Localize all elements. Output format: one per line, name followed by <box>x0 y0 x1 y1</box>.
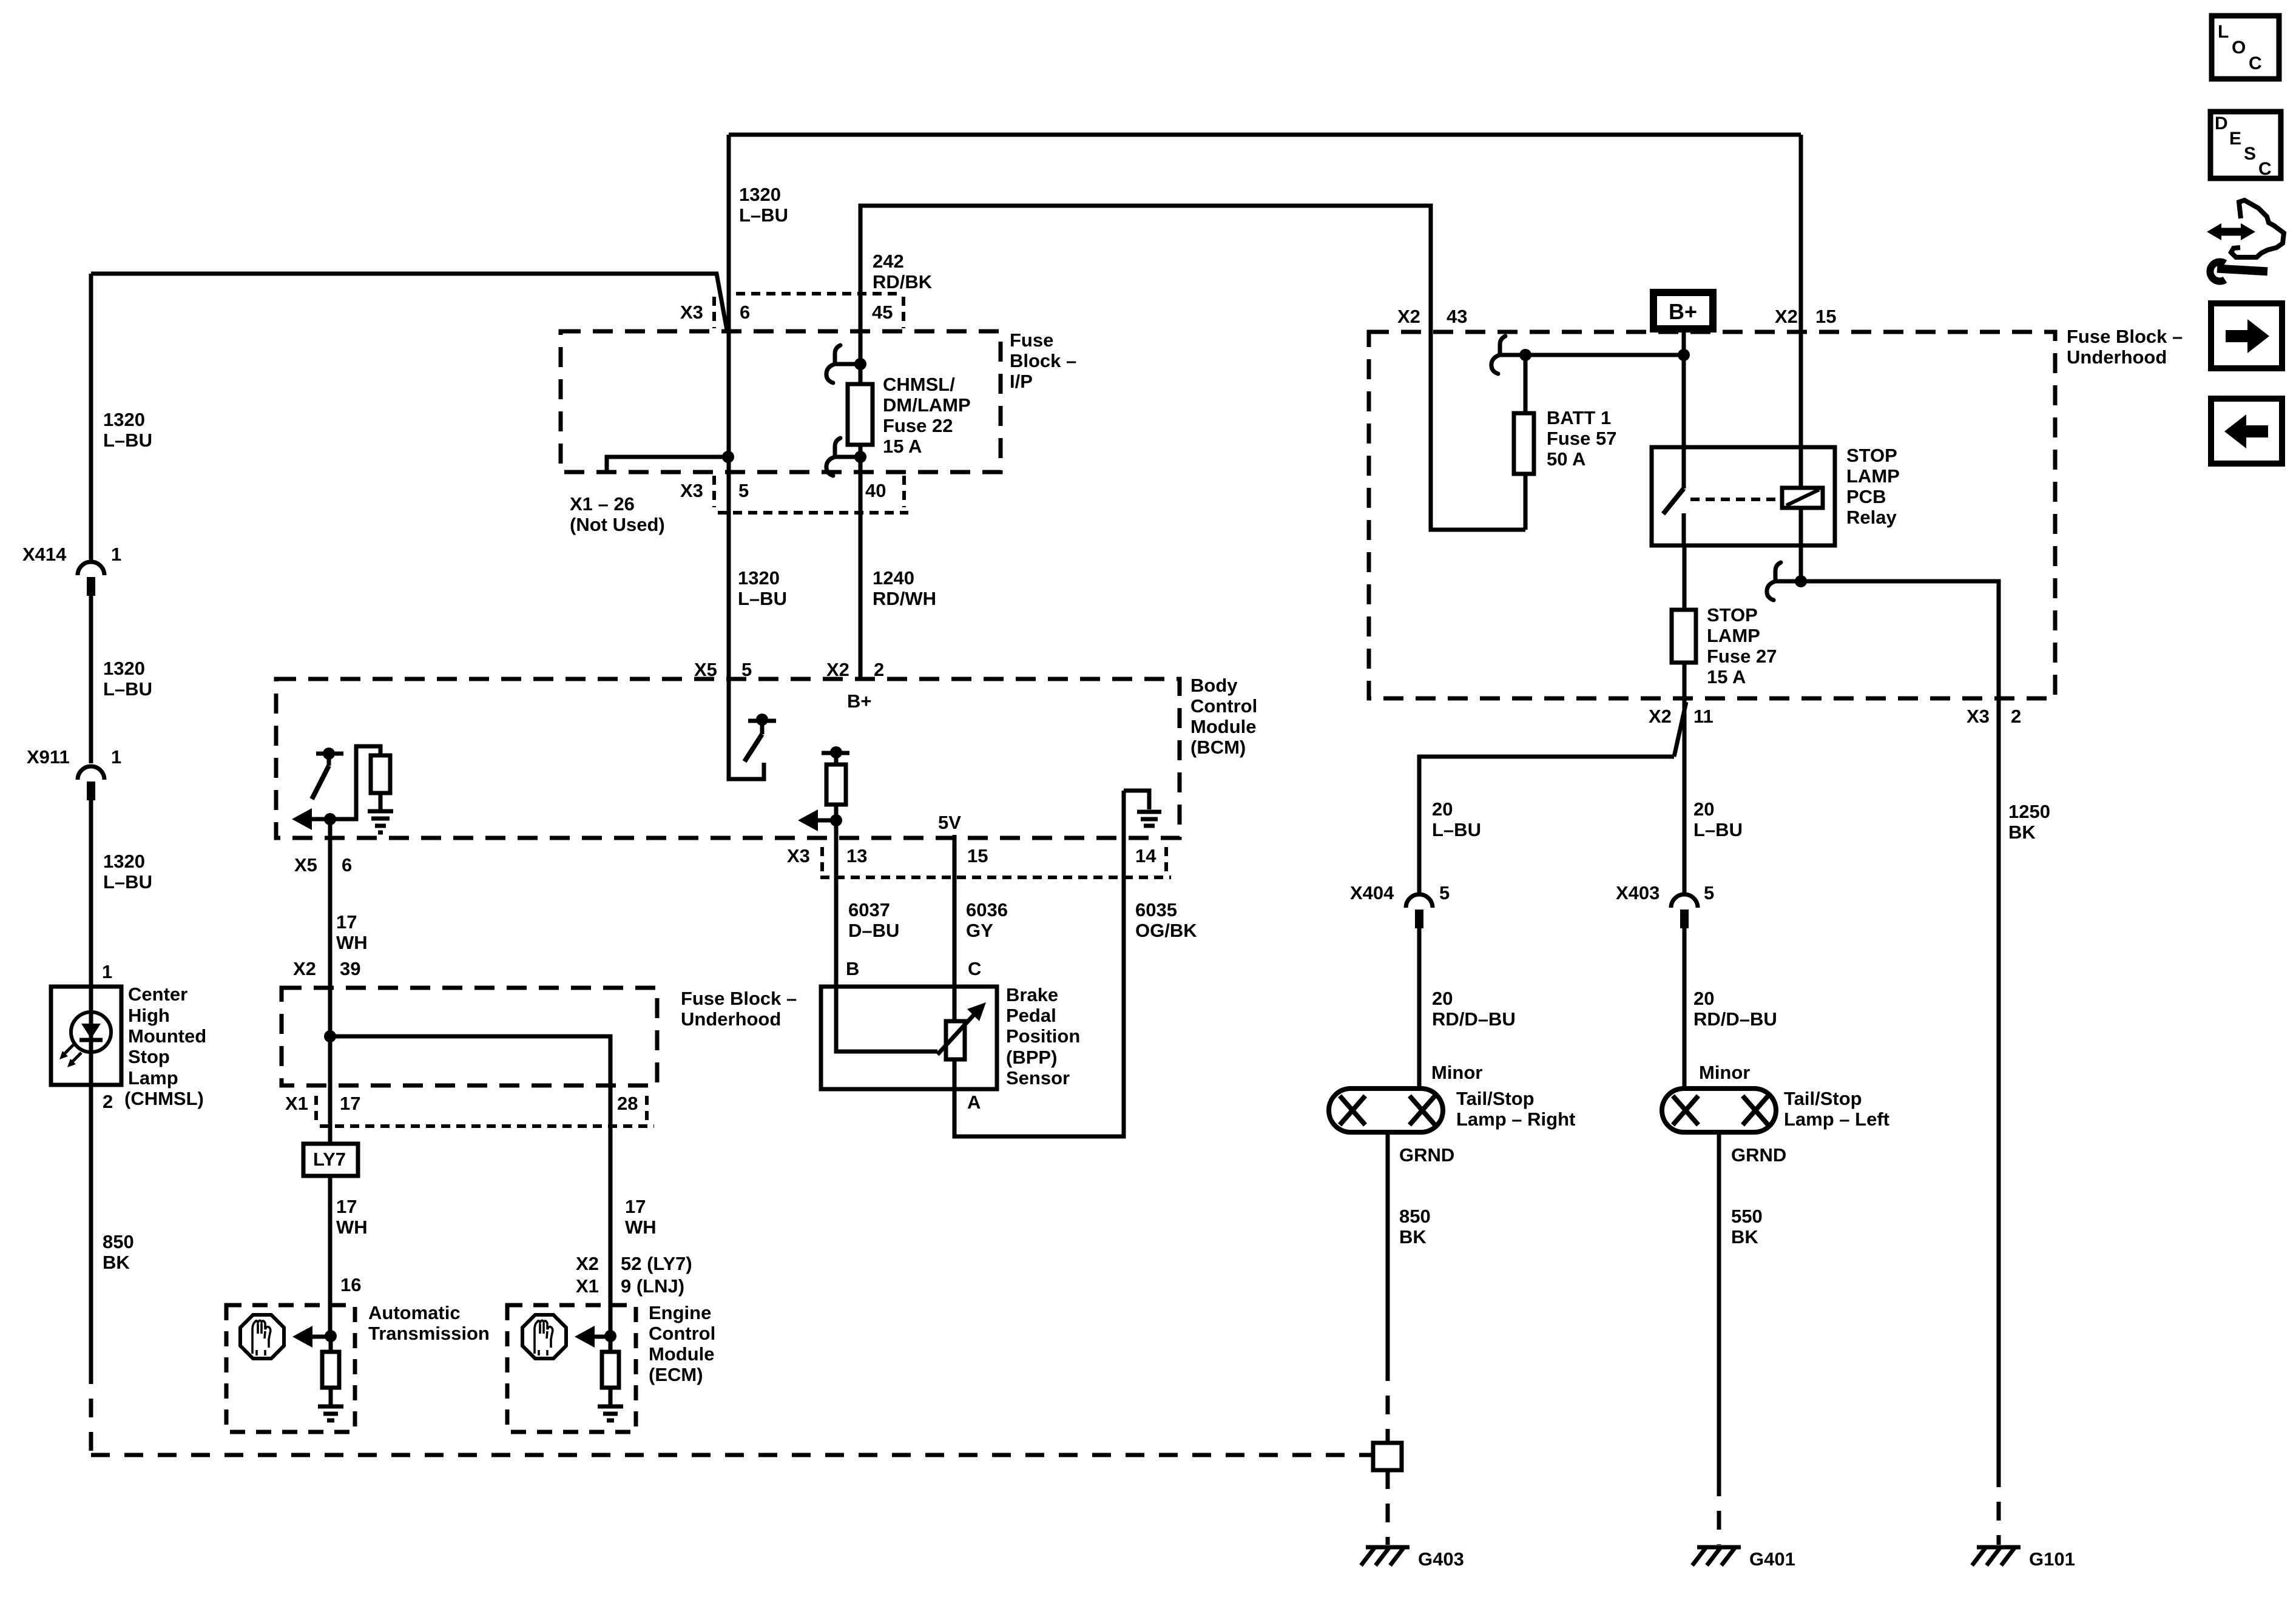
svg-text:2: 2 <box>874 659 884 680</box>
svg-text:X2: X2 <box>576 1253 599 1274</box>
label 1320 L-BU riser lower <box>103 851 152 893</box>
wire 20 RD/D-BU to right lamp <box>1417 928 1422 1089</box>
icon box LOC <box>2212 16 2279 79</box>
svg-text:L–BU: L–BU <box>103 871 152 893</box>
svg-text:Fuse Block –: Fuse Block – <box>2067 326 2183 347</box>
svg-text:40: 40 <box>865 480 886 501</box>
label GRND right lamp <box>1399 1144 1454 1166</box>
wire X5-6 junction path to resistor <box>330 746 380 819</box>
svg-text:X1: X1 <box>576 1275 599 1297</box>
svg-text:X3: X3 <box>1967 706 1990 727</box>
svg-text:BK: BK <box>1731 1226 1758 1247</box>
CHMSL lamp box <box>51 987 121 1085</box>
junction dot fuse 22 top <box>854 358 866 370</box>
svg-text:15 A: 15 A <box>1707 666 1746 687</box>
svg-text:52 (LY7): 52 (LY7) <box>621 1253 692 1274</box>
connector X403 pin 5 <box>1671 894 1698 928</box>
label X414 1 <box>22 544 121 565</box>
pin label X3 2 <box>1967 706 2021 727</box>
icon wrench <box>2210 262 2263 281</box>
brake pedal position sensor box <box>821 987 997 1089</box>
wire 850 BK right lamp ground <box>1386 1132 1390 1443</box>
svg-text:PCB: PCB <box>1846 486 1886 507</box>
label 550 BK left lamp <box>1731 1206 1763 1247</box>
svg-text:2: 2 <box>2011 706 2021 727</box>
contact dot and bar above resistor pin 13 <box>822 746 849 765</box>
label Automatic Transmission <box>368 1302 490 1344</box>
arrow left at pin 13 junction <box>798 809 836 831</box>
wire 20 RD/D-BU to left lamp <box>1683 928 1687 1089</box>
wire top run 1320 L-BU feed to relay coil <box>729 133 1801 137</box>
svg-text:5: 5 <box>1704 882 1714 903</box>
svg-text:Lamp – Left: Lamp – Left <box>1784 1109 1889 1130</box>
svg-text:G401: G401 <box>1749 1548 1795 1570</box>
icon box arrow left <box>2211 399 2282 464</box>
wire 1320 L-BU between X911 and CHMSL <box>89 796 93 987</box>
fuse block underhood left dashed box <box>282 988 657 1085</box>
svg-text:39: 39 <box>340 958 360 979</box>
junction dot fuse 22 bottom <box>854 451 866 463</box>
label Brake Pedal Position BPP Sensor <box>1006 984 1080 1089</box>
label STOP LAMP PCB Relay <box>1846 445 1900 528</box>
label Fuse Block Underhood right <box>2067 326 2183 368</box>
wire 550 BK left lamp ground <box>1717 1132 1721 1545</box>
svg-text:Brake: Brake <box>1006 984 1058 1005</box>
label 17 WH right branch <box>625 1196 657 1238</box>
svg-text:DM/LAMP: DM/LAMP <box>883 394 971 416</box>
svg-text:Block –: Block – <box>1010 350 1076 371</box>
svg-text:X3: X3 <box>680 302 703 323</box>
svg-text:X2: X2 <box>826 659 849 680</box>
svg-text:Lamp – Right: Lamp – Right <box>1456 1109 1575 1130</box>
svg-text:BK: BK <box>1399 1226 1427 1247</box>
pin label X2 11 <box>1649 706 1714 727</box>
resistor AT <box>322 1336 339 1405</box>
resistor ECM <box>602 1336 619 1405</box>
ground G403 <box>1361 1547 1410 1565</box>
svg-text:X3: X3 <box>680 480 703 501</box>
svg-text:Fuse Block –: Fuse Block – <box>681 988 797 1009</box>
svg-text:9 (LNJ): 9 (LNJ) <box>621 1275 684 1297</box>
potentiometer wiper element BPP <box>946 1021 965 1059</box>
pin label 2 CHMSL <box>103 1091 113 1112</box>
connector row X3 top of fuse block I/P <box>714 294 903 328</box>
wire 17 WH below LY7 <box>328 1176 333 1336</box>
svg-text:Fuse 57: Fuse 57 <box>1547 428 1616 449</box>
svg-text:5V: 5V <box>938 812 961 833</box>
clip hook relay output <box>1767 562 1801 600</box>
LED emission arrows <box>59 1045 81 1067</box>
label 850 BK right lamp <box>1399 1206 1431 1247</box>
wire dashed splice to G403 <box>1386 1470 1390 1545</box>
engine control module dashed box <box>507 1305 636 1432</box>
svg-text:D: D <box>2215 113 2228 133</box>
wire X2-43 to BATT1 fuse bottom <box>1431 332 1525 530</box>
wire 850 BK dashed run to splice <box>91 1365 1373 1455</box>
junction dot ECM <box>604 1330 616 1342</box>
relay mechanical link dashed <box>1690 498 1778 501</box>
svg-text:Body: Body <box>1190 675 1238 696</box>
svg-text:B+: B+ <box>847 690 872 712</box>
pin label X2 43 <box>1397 306 1467 327</box>
label 6037 D-BU <box>848 899 899 941</box>
arrow left AT <box>292 1326 331 1348</box>
connector X911 pin 1 <box>78 766 104 800</box>
label 1240 RD/WH below fuse block <box>873 567 936 609</box>
svg-text:1320: 1320 <box>739 184 781 205</box>
svg-text:Module: Module <box>649 1343 715 1365</box>
svg-text:17: 17 <box>336 1196 357 1217</box>
wire 1320 L-BU CHMSL riser upper <box>89 274 93 562</box>
svg-text:Stop: Stop <box>128 1046 170 1067</box>
pin label X5 5 BCM top <box>694 659 752 680</box>
svg-text:RD/WH: RD/WH <box>873 588 936 609</box>
svg-text:L–BU: L–BU <box>103 430 152 451</box>
pin label 40 <box>865 480 886 501</box>
label 20 L-BU left branch <box>1432 798 1481 840</box>
svg-text:WH: WH <box>336 932 368 953</box>
svg-text:GRND: GRND <box>1731 1144 1786 1166</box>
label 6035 OG/BK <box>1135 899 1197 941</box>
label X911 1 <box>27 746 121 768</box>
svg-text:Underhood: Underhood <box>681 1008 781 1030</box>
svg-text:CHMSL/: CHMSL/ <box>883 374 955 395</box>
potentiometer arrow BPP <box>937 1002 986 1055</box>
svg-text:20: 20 <box>1432 988 1453 1009</box>
svg-text:50 A: 50 A <box>1547 448 1585 470</box>
wire branch 20 L-BU to X404 <box>1419 757 1674 896</box>
svg-text:1320: 1320 <box>103 409 145 430</box>
svg-text:20: 20 <box>1432 798 1453 820</box>
svg-text:High: High <box>128 1005 170 1026</box>
ground bars ECM <box>598 1406 623 1420</box>
label GRND left lamp <box>1731 1144 1786 1166</box>
svg-text:Fuse 27: Fuse 27 <box>1707 646 1777 667</box>
svg-text:Lamp: Lamp <box>128 1067 178 1089</box>
body control module BCM dashed box <box>276 679 1180 838</box>
junction dot X5-6 <box>324 813 336 825</box>
label 17 WH upper <box>336 911 368 953</box>
wire 17 WH to ECM <box>609 1305 613 1336</box>
svg-text:RD/D–BU: RD/D–BU <box>1693 1008 1777 1030</box>
stop lamp PCB relay box <box>1652 447 1835 545</box>
svg-text:C: C <box>968 958 981 979</box>
svg-text:GRND: GRND <box>1399 1144 1454 1166</box>
svg-text:A: A <box>967 1092 981 1113</box>
svg-text:850: 850 <box>103 1231 134 1252</box>
svg-text:1240: 1240 <box>873 567 914 589</box>
svg-text:5: 5 <box>1439 882 1450 903</box>
svg-text:X1: X1 <box>285 1093 308 1114</box>
clip hook above fuse 22 <box>826 345 860 383</box>
svg-text:Relay: Relay <box>1846 507 1897 528</box>
pin label X3 6 top <box>680 302 750 323</box>
svg-text:D–BU: D–BU <box>848 920 899 941</box>
junction dot BATT1 top <box>1519 349 1531 361</box>
svg-text:Transmission: Transmission <box>368 1323 490 1344</box>
battery feed B+ box <box>1653 292 1713 329</box>
svg-text:BATT 1: BATT 1 <box>1547 407 1611 428</box>
icon box DESC <box>2210 112 2281 179</box>
svg-text:X2: X2 <box>1649 706 1672 727</box>
wire X5-6 down to BCM pin <box>328 819 333 988</box>
svg-text:6: 6 <box>342 854 352 876</box>
svg-text:17: 17 <box>340 1093 360 1114</box>
LED symbol in CHMSL <box>71 1012 111 1052</box>
label X1-26 Not Used <box>570 493 665 535</box>
wire diagonal jog at pin 11 <box>1674 702 1686 757</box>
fuse block underhood right dashed box <box>1369 332 2055 698</box>
wire relay switch to fuse 27 <box>1683 545 1687 698</box>
tail stop lamp right <box>1329 1089 1443 1132</box>
pin label 1 CHMSL <box>102 961 112 982</box>
label 1250 BK <box>2008 801 2050 843</box>
svg-text:OG/BK: OG/BK <box>1135 920 1197 941</box>
svg-text:Mounted: Mounted <box>128 1025 206 1047</box>
label Minor left lamp <box>1699 1062 1750 1083</box>
label BATT 1 Fuse 57 50 A <box>1547 407 1616 470</box>
pin label 45 <box>872 302 893 323</box>
svg-text:X2: X2 <box>293 958 316 979</box>
svg-text:6035: 6035 <box>1135 899 1177 920</box>
label 1320 L-BU below fuse block <box>738 567 787 609</box>
junction dot pin 13 branch <box>830 814 842 826</box>
svg-text:1: 1 <box>111 544 121 565</box>
svg-text:1: 1 <box>111 746 121 768</box>
svg-text:B: B <box>846 958 859 979</box>
svg-text:Position: Position <box>1006 1025 1080 1047</box>
label Tail/Stop Lamp Left <box>1784 1088 1889 1130</box>
svg-text:STOP: STOP <box>1846 445 1897 466</box>
label G401 <box>1749 1548 1795 1570</box>
svg-text:20: 20 <box>1693 988 1714 1009</box>
wire 5V 6036 GY to BPP wiper <box>953 835 957 1021</box>
svg-text:STOP: STOP <box>1707 604 1758 626</box>
pin label A BPP <box>967 1092 981 1113</box>
svg-text:BK: BK <box>103 1252 130 1273</box>
label 1320 L-BU riser middle <box>103 658 152 700</box>
svg-text:43: 43 <box>1447 306 1467 327</box>
svg-text:(ECM): (ECM) <box>649 1364 703 1385</box>
svg-text:RD/BK: RD/BK <box>873 271 933 292</box>
resistor in BCM left <box>371 755 390 810</box>
svg-text:Fuse: Fuse <box>1010 329 1053 351</box>
ground G101 <box>1972 1547 2021 1565</box>
svg-text:G403: G403 <box>1418 1548 1464 1570</box>
label X403 5 <box>1616 882 1714 903</box>
pin label X2 15 <box>1775 306 1836 327</box>
svg-text:(BCM): (BCM) <box>1190 737 1246 758</box>
svg-text:Tail/Stop: Tail/Stop <box>1456 1088 1535 1109</box>
arrow left at X5-6 junction <box>292 808 330 830</box>
svg-text:(Not Used): (Not Used) <box>570 514 665 535</box>
label 20 L-BU right branch <box>1693 798 1743 840</box>
label 17 WH below LY7 <box>336 1196 368 1238</box>
svg-text:Underhood: Underhood <box>2067 346 2167 368</box>
pin label X5 6 BCM bottom <box>294 854 352 876</box>
label 850 BK left <box>103 1231 134 1273</box>
ground G401 <box>1692 1547 1741 1565</box>
wire relay coil output <box>1799 508 1803 581</box>
icon box arrow right <box>2211 303 2282 368</box>
svg-text:45: 45 <box>872 302 893 323</box>
option box LY7 <box>303 1144 358 1176</box>
svg-text:L–BU: L–BU <box>739 204 788 226</box>
svg-text:L–BU: L–BU <box>738 588 787 609</box>
wire 1250 BK down to G101 <box>1997 698 2001 1545</box>
label 242 RD/BK <box>873 251 933 292</box>
svg-text:X403: X403 <box>1616 882 1660 903</box>
fuse F22 CHMSL/DM/LAMP <box>848 364 873 457</box>
svg-text:I/P: I/P <box>1010 371 1033 392</box>
svg-text:6037: 6037 <box>848 899 890 920</box>
svg-text:X3: X3 <box>787 845 810 866</box>
relay switch lever <box>1663 488 1684 545</box>
arrow left ECM <box>575 1326 611 1348</box>
label B+ inside BCM <box>847 690 872 712</box>
connector row X1 17 28 <box>316 1096 654 1126</box>
tail stop lamp left <box>1662 1089 1776 1132</box>
wire 1240 RD/WH from fuse 22 bottom to BCM X2-2 B+ <box>859 457 863 679</box>
label 1320 L-BU top riser <box>739 184 788 226</box>
svg-text:C: C <box>2258 159 2272 179</box>
wire branch to pin 28 <box>330 1036 610 1305</box>
svg-text:Pedal: Pedal <box>1006 1005 1056 1026</box>
svg-text:E: E <box>2229 129 2241 149</box>
svg-text:X911: X911 <box>27 746 70 768</box>
svg-text:L–BU: L–BU <box>1693 819 1743 840</box>
svg-text:L–BU: L–BU <box>103 678 152 700</box>
ground bars BCM right <box>1137 812 1161 826</box>
svg-text:WH: WH <box>625 1217 657 1238</box>
svg-text:X2: X2 <box>1397 306 1420 327</box>
svg-text:5: 5 <box>738 480 749 501</box>
junction dot X1-26 stub <box>722 451 734 463</box>
svg-text:Minor: Minor <box>1431 1062 1482 1083</box>
svg-text:15: 15 <box>967 845 988 866</box>
label X404 5 <box>1350 882 1450 903</box>
svg-text:15 A: 15 A <box>883 436 922 457</box>
svg-text:C: C <box>2249 53 2262 73</box>
pin labels X2 52 LY7 X1 9 LNJ <box>576 1253 692 1297</box>
svg-text:L: L <box>2218 22 2229 42</box>
hand icon octagon AT <box>240 1315 284 1359</box>
fuse F27 STOP LAMP <box>1672 610 1696 663</box>
fuse block I/P dashed box <box>561 331 1001 472</box>
svg-text:Control: Control <box>649 1323 715 1344</box>
connector X404 pin 5 <box>1406 894 1433 928</box>
svg-text:6: 6 <box>740 302 750 323</box>
label 5V <box>938 812 961 833</box>
pin label C BPP <box>968 958 981 979</box>
label 1320 L-BU riser upper <box>103 409 152 451</box>
svg-text:14: 14 <box>1135 845 1156 866</box>
junction dot relay output <box>1795 575 1807 587</box>
svg-text:RD/D–BU: RD/D–BU <box>1432 1008 1516 1030</box>
wire 17 WH into left underhood block <box>328 988 333 1144</box>
clip hook below fuse 22 <box>826 438 860 476</box>
ground bars AT <box>318 1406 343 1420</box>
svg-text:550: 550 <box>1731 1206 1763 1227</box>
svg-text:(BPP): (BPP) <box>1006 1047 1057 1068</box>
svg-text:15: 15 <box>1815 306 1836 327</box>
svg-text:16: 16 <box>340 1274 361 1295</box>
label Body Control Module BCM <box>1190 675 1257 758</box>
resistor in BCM pin 13 branch <box>826 765 846 820</box>
connector row X3 bottom of fuse block I/P <box>714 476 908 513</box>
svg-text:1: 1 <box>102 961 112 982</box>
ground hook BCM right pin 14 <box>1124 791 1149 809</box>
connector X414 pin 1 <box>78 562 104 596</box>
pin label X2 39 <box>293 958 360 979</box>
svg-text:17: 17 <box>625 1196 646 1217</box>
svg-text:Tail/Stop: Tail/Stop <box>1784 1088 1862 1109</box>
wire 242 RD/BK run from fuse 22 top to X2-43 <box>860 206 1431 364</box>
label STOP LAMP Fuse 27 15 A <box>1707 604 1777 687</box>
svg-text:BK: BK <box>2008 822 2036 843</box>
svg-text:LY7: LY7 <box>313 1149 346 1170</box>
fuse F57 BATT 1 <box>1514 355 1534 530</box>
svg-text:Minor: Minor <box>1699 1062 1750 1083</box>
svg-text:Engine: Engine <box>649 1302 711 1323</box>
svg-text:Module: Module <box>1190 716 1257 737</box>
label 20 RD/D-BU right lamp <box>1432 988 1516 1030</box>
svg-text:1320: 1320 <box>738 567 780 589</box>
svg-text:LAMP: LAMP <box>1707 625 1760 646</box>
wire CHMSL branch horizontal with diagonal jog into pin 6 <box>91 274 727 330</box>
label Tail/Stop Lamp Right <box>1456 1088 1575 1130</box>
svg-text:11: 11 <box>1693 706 1714 727</box>
wire X2-15 riser down to relay coil <box>1799 135 1803 488</box>
label G101 <box>2029 1548 2075 1570</box>
icon car outline <box>2231 200 2284 257</box>
svg-text:1320: 1320 <box>103 851 145 872</box>
junction dot underhood splice <box>324 1030 336 1042</box>
svg-text:20: 20 <box>1693 798 1714 820</box>
wire stub X1-26 not used <box>607 457 728 472</box>
svg-text:(CHMSL): (CHMSL) <box>124 1088 204 1109</box>
svg-text:28: 28 <box>617 1093 638 1114</box>
svg-text:X404: X404 <box>1350 882 1394 903</box>
wire through CHMSL lamp <box>89 987 93 1085</box>
svg-text:13: 13 <box>846 845 867 866</box>
pin labels X3 13 15 14 <box>787 845 1156 866</box>
svg-text:Control: Control <box>1190 695 1257 717</box>
label Fuse Block Underhood left <box>681 988 797 1030</box>
relay coil <box>1782 488 1823 508</box>
label Engine Control Module ECM <box>649 1302 715 1385</box>
clip hook BATT1 feed <box>1491 336 1525 374</box>
ground bars BCM left <box>368 811 393 832</box>
svg-text:1320: 1320 <box>103 658 145 679</box>
label G403 <box>1418 1548 1464 1570</box>
wire BATT1 feed horizontal <box>1525 353 1684 357</box>
svg-text:B+: B+ <box>1669 299 1697 324</box>
svg-text:X1 – 26: X1 – 26 <box>570 493 635 515</box>
svg-text:O: O <box>2232 38 2246 58</box>
svg-text:242: 242 <box>873 251 904 272</box>
wire riser 1320 L-BU from top run down through fuse block pin 6 to BCM X5-5 switch <box>729 135 764 779</box>
svg-text:Automatic: Automatic <box>368 1302 461 1323</box>
label Center High Mounted Stop Lamp CHMSL <box>124 984 206 1109</box>
svg-text:5: 5 <box>741 659 752 680</box>
wire 6035 OG/BK BCM pin 14 to BPP pin A <box>954 791 1124 1136</box>
svg-text:850: 850 <box>1399 1206 1431 1227</box>
svg-text:WH: WH <box>336 1217 368 1238</box>
junction dot B+ riser <box>1678 349 1690 361</box>
svg-text:Sensor: Sensor <box>1006 1067 1070 1089</box>
pin label B BPP <box>846 958 859 979</box>
